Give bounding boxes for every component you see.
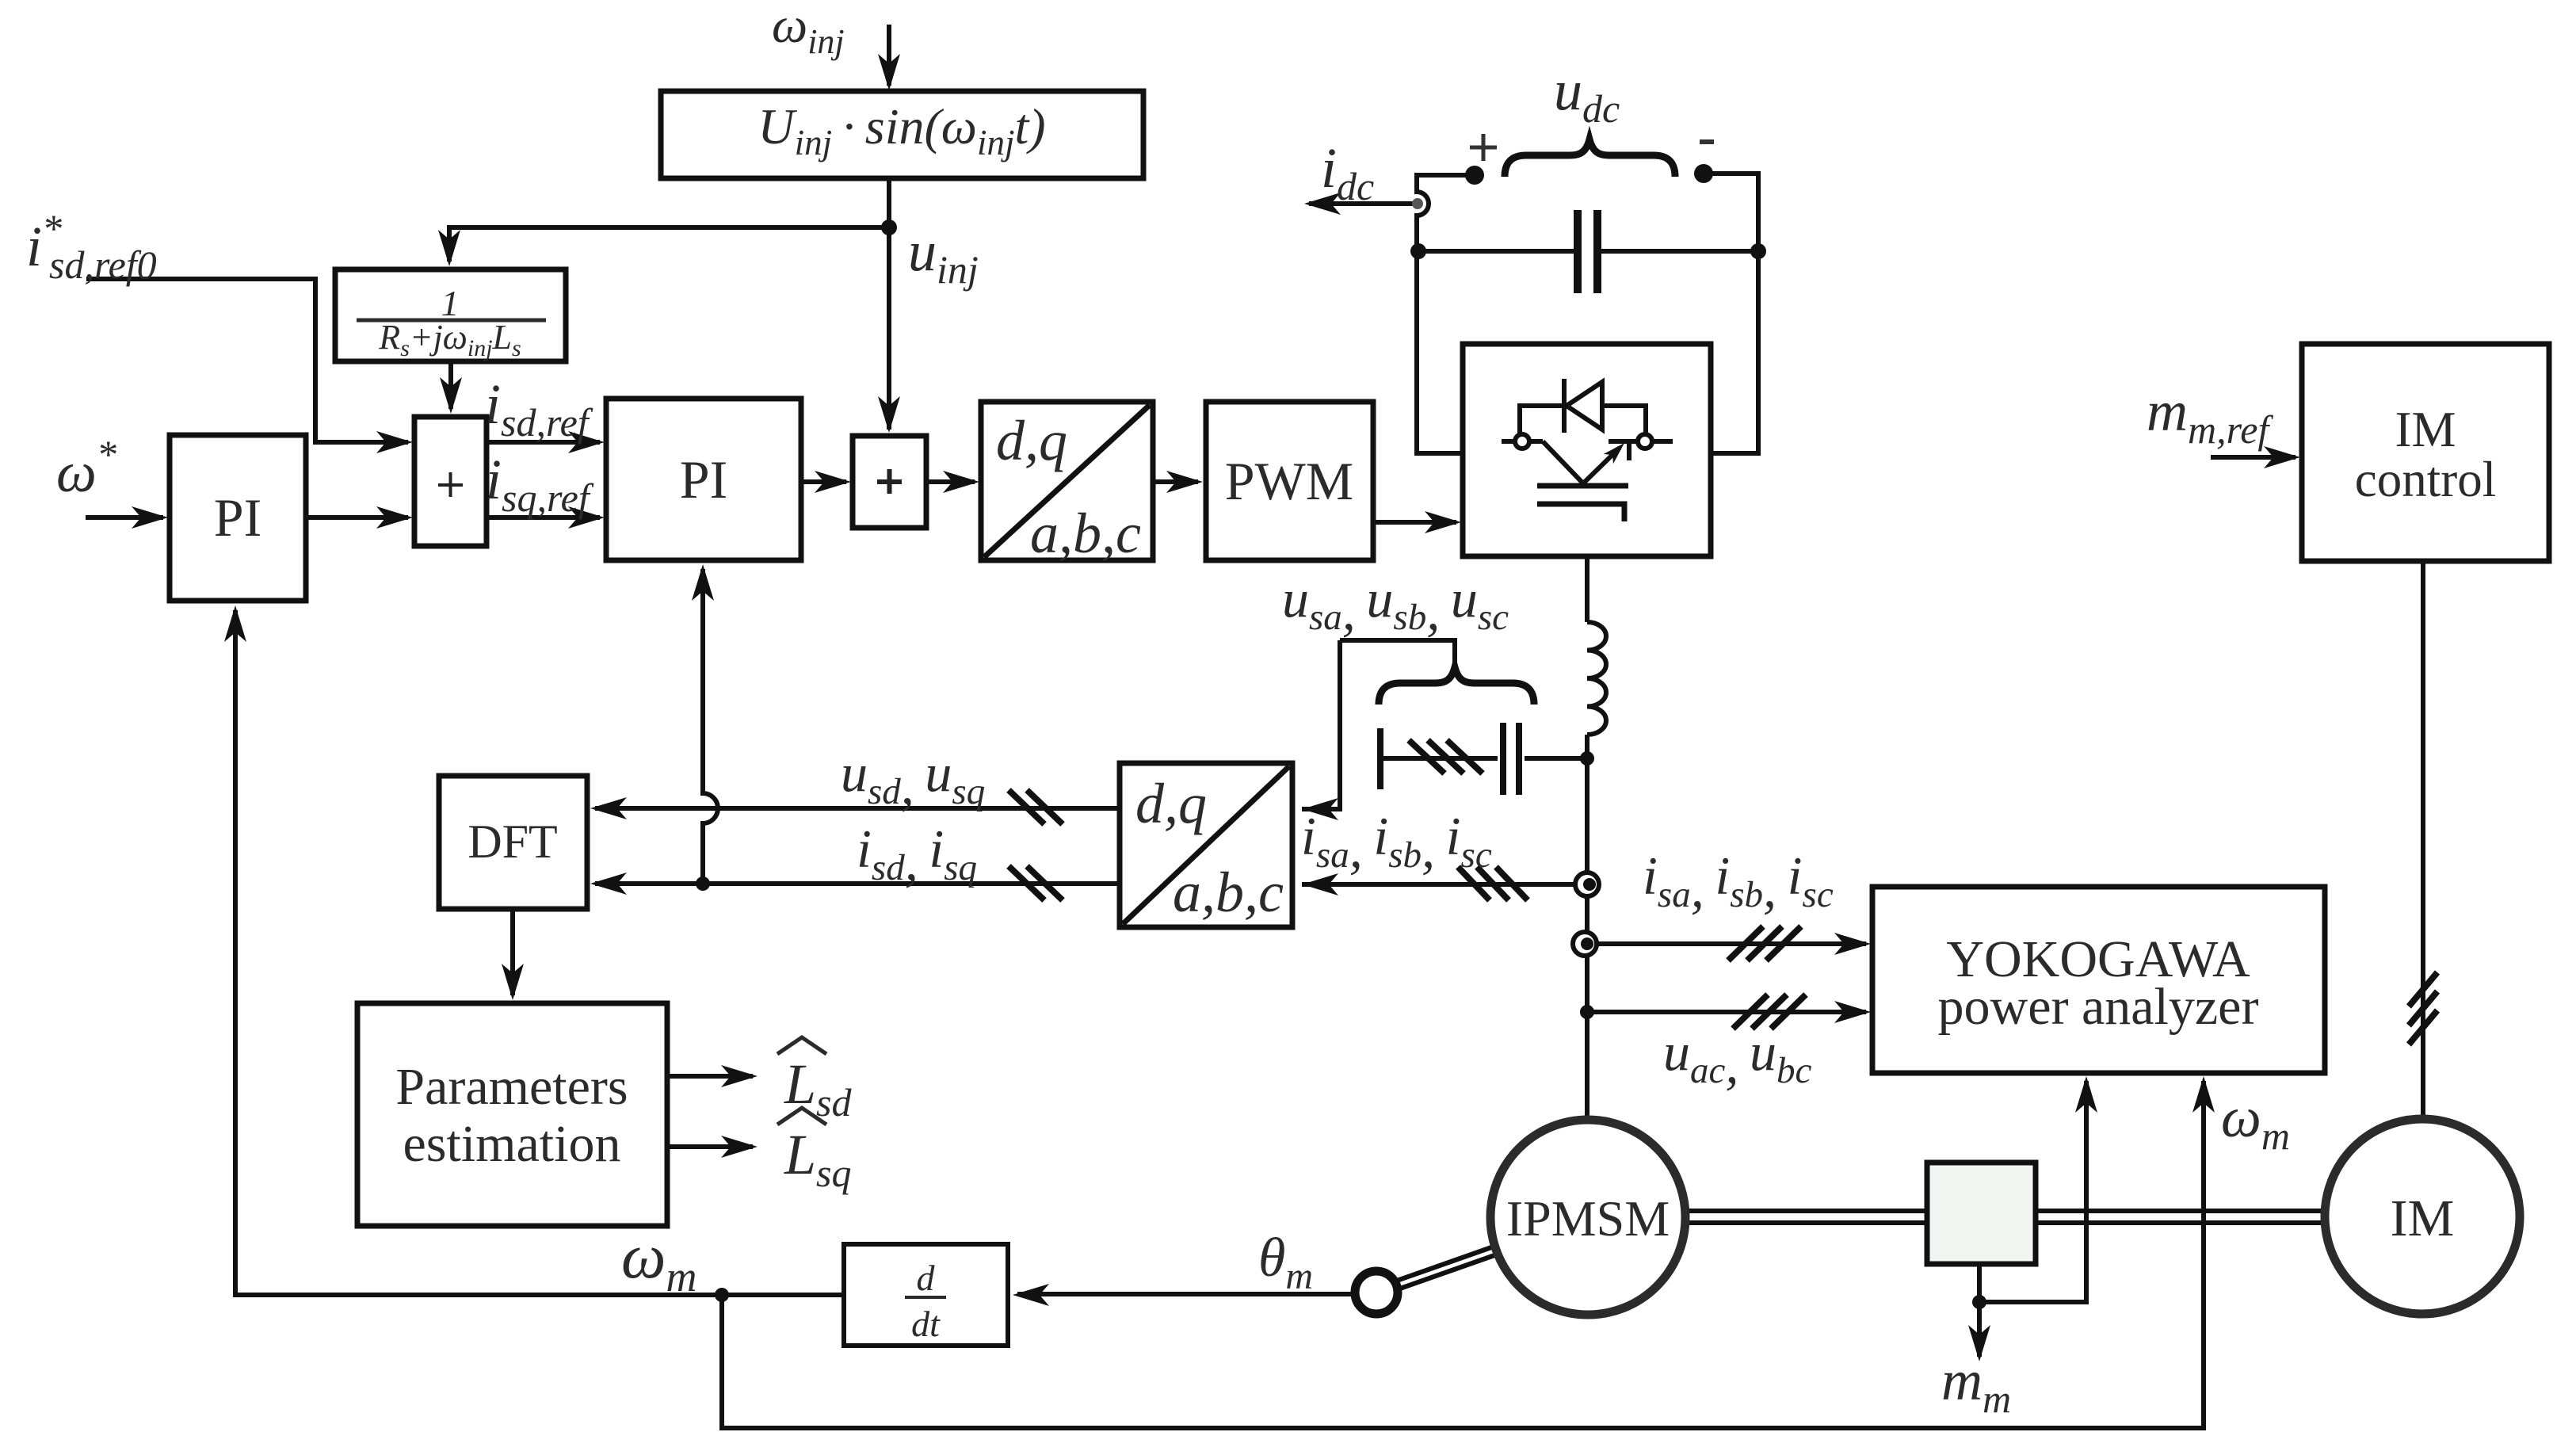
wire theta_m from encoder to d/dt (1017, 1292, 1355, 1296)
svg-text:IM: IM (2395, 402, 2456, 457)
inductor coil on phase line (1587, 622, 1606, 735)
wire omega* input into PI1 (86, 515, 163, 520)
capacitor C_dc plates (1578, 210, 1597, 293)
wire DC link capacitor right lead (1601, 249, 1758, 254)
wire voltage sensing down into dq2 right upper input (1302, 640, 1340, 809)
block dq/abc transform 2 (1120, 763, 1292, 927)
shaft coupling to IM lower line (2036, 1220, 2323, 1225)
svg-text:d,q: d,q (1135, 772, 1207, 835)
3 slashes on i_sa line to YOKOGAWA (1728, 926, 1801, 960)
svg-text:PWM: PWM (1225, 451, 1353, 511)
wire DFT output down to Parameters estimation (510, 909, 515, 995)
plus sign at DC link (1470, 134, 1497, 161)
wire DC left rail bottom into inverter (1417, 444, 1463, 453)
wire sin box output down to u_inj node (887, 178, 891, 227)
wire i_dc arrow line (1309, 201, 1415, 206)
diode inside inverter (1520, 379, 1646, 436)
3 slashes on u_ac line to YOKOGAWA (1733, 995, 1806, 1029)
wire u_inj branch down into sum2 (887, 227, 891, 430)
wire sum2 output to dq1 (926, 479, 975, 484)
wire PI1 output to sum1 lower input (306, 515, 408, 520)
wire u_inj branch left and down into 1/(Rs+jwLs) box (449, 227, 889, 262)
wire coil to voltage tap node (1585, 735, 1589, 758)
svg-text:control: control (2355, 452, 2496, 507)
wire inverter output down to coil (1585, 556, 1589, 622)
wire phase line between tap rings (1585, 896, 1589, 932)
svg-text:DFT: DFT (467, 815, 557, 868)
wire PI2 output to sum2 (801, 479, 846, 484)
wire m_m,ref input into IM control (2211, 455, 2296, 460)
wire Parameters estimation output Lsd (667, 1074, 753, 1079)
wire voltage sensing bracket over brace (1340, 640, 1455, 667)
node omega_m junction (715, 1288, 729, 1302)
wire phase line down to current tap ring 1 (1585, 758, 1589, 873)
block DFT (439, 776, 587, 909)
block torque transducer coupling (1927, 1163, 2036, 1264)
wire dq1 output to PWM (1153, 479, 1198, 484)
wire m_m from coupling down (1977, 1264, 1982, 1302)
wire sum1 upper output i_sd,ref to PI2 (487, 440, 600, 445)
3-phase slashes on i_sa line to dq2 (1458, 867, 1528, 900)
svg-text:Parameters: Parameters (395, 1058, 628, 1116)
wire Parameters estimation output Lsq (667, 1144, 753, 1149)
wire PWM output to inverter (1373, 520, 1456, 525)
block 1/(Rs+jw_inj Ls) (335, 269, 566, 361)
wire u_sd,u_sq from dq2 to DFT (595, 806, 1120, 811)
wire omega_inj input arrow into sin box (887, 25, 891, 86)
svg-text:a,b,c: a,b,c (1173, 861, 1284, 924)
node voltage tap3 (1580, 1005, 1594, 1019)
wire sum1 lower output i_sq,ref to PI2 (487, 515, 600, 520)
block U_inj sin box (661, 91, 1143, 178)
summing block 1 (414, 417, 487, 546)
svg-text:PI: PI (214, 487, 261, 548)
svg-text:estimation: estimation (403, 1115, 621, 1173)
svg-text:IM: IM (2391, 1190, 2455, 1247)
node DC cap left junction (1410, 243, 1426, 259)
3-phase slashes on measuring capacitor wire (1409, 740, 1483, 773)
wire 1/(Rs+jwLs) output into sum1 top (448, 361, 453, 409)
block IM control (2302, 344, 2549, 561)
block dq/abc transform 1 (981, 402, 1153, 560)
2 slashes on i_sd,i_sq line (1009, 866, 1063, 900)
current tap ring 1 (1575, 873, 1599, 896)
op-amp PI1 speed controller box (170, 435, 306, 601)
wire m_m branch right and up to YOKOGAWA (1979, 1081, 2086, 1302)
svg-text:a,b,c: a,b,c (1030, 502, 1141, 565)
minus sign at DC link (1700, 139, 1714, 144)
svg-text:dt: dt (911, 1304, 941, 1344)
brace over measuring capacitors (1379, 667, 1534, 705)
svg-text:d: d (917, 1258, 936, 1298)
wire feedback from i_sd line up to PI2 with hop over u_sd line (703, 569, 718, 884)
wire m_m arrow down (1977, 1302, 1982, 1357)
svg-text:power analyzer: power analyzer (1938, 978, 2259, 1036)
shaft IPMSM to coupling upper line (1685, 1209, 1927, 1213)
wire omega_m branch down and right to YOKOGAWA (722, 1081, 2204, 1428)
block YOKOGAWA power analyzer (1872, 887, 2325, 1073)
shaft encoder to IPMSM double line (1395, 1247, 1497, 1289)
node phase/cap junction (1580, 751, 1594, 766)
block PI2 current controller (606, 399, 801, 560)
node DC cap right junction (1750, 243, 1766, 259)
wire DC link capacitor left lead (1418, 249, 1574, 254)
wire measuring capacitor chain right to phase node (1525, 756, 1587, 761)
arrowheads (878, 54, 900, 90)
wire IM control down to IM machine (2421, 561, 2425, 1117)
wire measuring capacitor chain (1380, 756, 1498, 761)
svg-text:Rs+jωinjLs: Rs+jωinjLs (378, 318, 521, 361)
wire phase line ring2 to voltage tap dot and IPMSM (1585, 956, 1589, 1116)
block d/dt (844, 1244, 1008, 1346)
measuring capacitor plates (1380, 723, 1519, 795)
encoder circle (1355, 1271, 1398, 1314)
wire current tap2 to YOKOGAWA upper input (1586, 941, 1866, 946)
current tap ring 2 (1573, 932, 1597, 956)
node i_sd line junction (696, 876, 710, 891)
wire current line from tap1 into dq2 right lower input (1302, 882, 1585, 887)
svg-text:IPMSM: IPMSM (1506, 1190, 1670, 1247)
transistor symbol inside inverter (1502, 441, 1673, 521)
2 slashes on u_sd,u_sq line (1009, 790, 1063, 824)
wire DC link plus terminal to left rail with hop over i_dc tap (1417, 175, 1467, 444)
wire DC link minus terminal to right rail down into inverter (1711, 174, 1758, 453)
wire i*sd,ref0 into sum1 upper input (86, 279, 408, 442)
summing block 2 (853, 436, 926, 528)
shaft coupling to IM upper line (2036, 1209, 2323, 1213)
block inverter (1463, 344, 1711, 556)
block Parameters estimation (357, 1003, 667, 1226)
brace for u_dc (1505, 139, 1675, 177)
svg-text:PI: PI (680, 449, 727, 510)
node u_inj junction (881, 220, 897, 235)
3 slashes on IM control line (2409, 972, 2437, 1044)
block PWM (1206, 402, 1373, 560)
node DC plus terminal (1465, 166, 1484, 185)
node m_m junction (1972, 1295, 1986, 1309)
svg-text:d,q: d,q (996, 409, 1067, 472)
wire voltage tap3 to YOKOGAWA lower input (1587, 1010, 1866, 1014)
node DC minus terminal (1694, 164, 1713, 183)
node i_dc tail dot (1412, 198, 1423, 209)
wire omega_m from d/dt left to PI1 bottom (235, 610, 844, 1295)
machine IPMSM circle (1490, 1120, 1685, 1315)
shaft IPMSM to coupling lower line (1685, 1220, 1927, 1225)
machine IM circle (2325, 1119, 2520, 1314)
wire i_sd,i_sq from dq2 to DFT (595, 881, 1120, 886)
